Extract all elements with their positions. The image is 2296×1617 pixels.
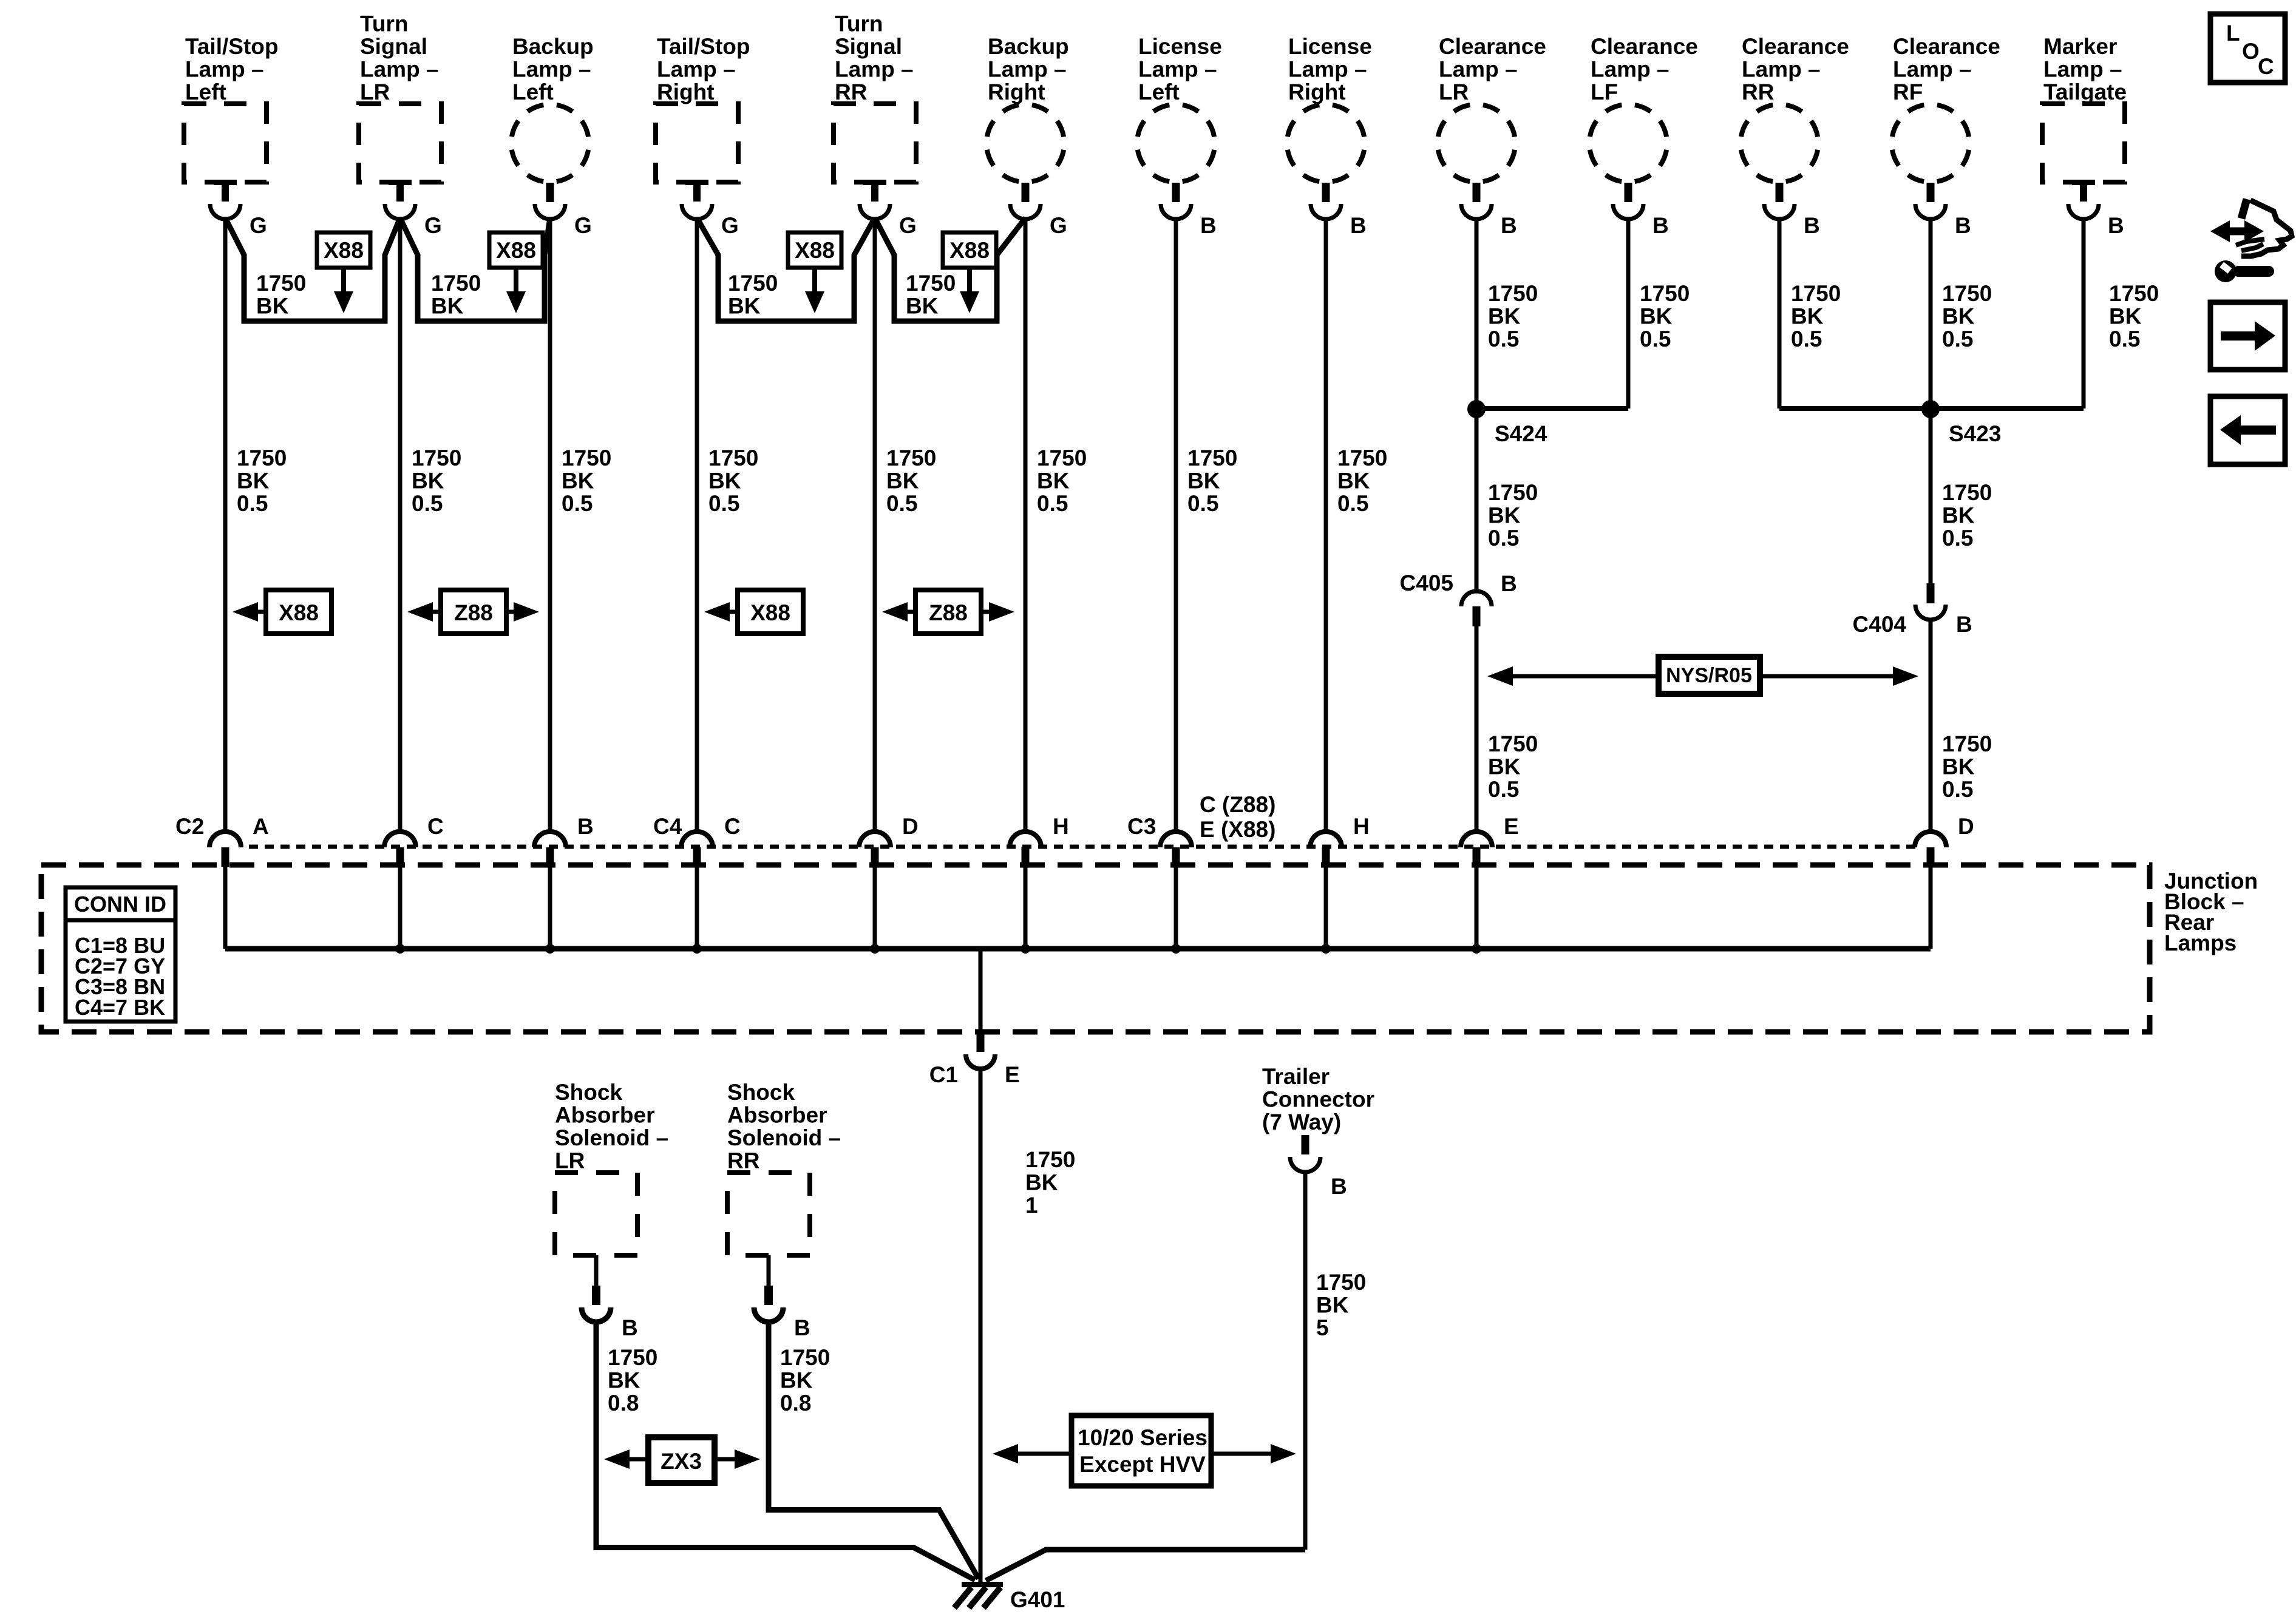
svg-text:RR: RR — [1742, 80, 1774, 104]
svg-text:BK: BK — [431, 294, 464, 319]
svg-text:1750: 1750 — [1488, 731, 1538, 756]
svg-text:BK: BK — [1488, 304, 1521, 329]
svg-text:0.5: 0.5 — [1488, 327, 1519, 351]
svg-text:Backup: Backup — [512, 34, 594, 59]
svg-text:X88: X88 — [750, 600, 790, 625]
svg-text:BK: BK — [412, 469, 444, 493]
svg-text:Lamp –: Lamp – — [1439, 57, 1518, 82]
svg-text:1750: 1750 — [237, 446, 287, 470]
svg-text:Lamp –: Lamp – — [1138, 57, 1217, 82]
svg-text:1: 1 — [1025, 1193, 1038, 1218]
svg-text:C3: C3 — [1127, 814, 1156, 839]
svg-text:C: C — [724, 814, 741, 839]
svg-text:Lamp –: Lamp – — [1591, 57, 1669, 82]
svg-text:Tail/Stop: Tail/Stop — [657, 34, 750, 59]
svg-text:1750: 1750 — [1316, 1270, 1366, 1295]
svg-text:0.5: 0.5 — [1640, 327, 1671, 351]
svg-text:0.5: 0.5 — [1488, 526, 1519, 551]
svg-text:Lamp –: Lamp – — [657, 57, 736, 82]
svg-text:License: License — [1138, 34, 1222, 59]
svg-text:C (Z88): C (Z88) — [1200, 792, 1275, 817]
svg-text:H: H — [1353, 814, 1370, 839]
svg-text:LR: LR — [1439, 80, 1469, 104]
svg-text:B: B — [1350, 213, 1367, 238]
svg-text:LF: LF — [1591, 80, 1618, 104]
svg-text:RR: RR — [835, 80, 867, 104]
svg-text:0.5: 0.5 — [708, 491, 739, 516]
svg-text:Absorber: Absorber — [555, 1103, 654, 1128]
svg-text:BK: BK — [1942, 754, 1975, 779]
svg-text:5: 5 — [1316, 1315, 1329, 1340]
svg-text:X88: X88 — [324, 238, 364, 263]
svg-text:G: G — [899, 213, 917, 238]
svg-text:BK: BK — [1791, 304, 1824, 329]
svg-text:BK: BK — [1316, 1293, 1349, 1318]
svg-text:A: A — [253, 814, 269, 839]
svg-text:Clearance: Clearance — [1742, 34, 1849, 59]
svg-text:0.5: 0.5 — [237, 491, 268, 516]
svg-text:S423: S423 — [1949, 421, 2001, 446]
svg-text:Tail/Stop: Tail/Stop — [185, 34, 278, 59]
svg-text:Lamp –: Lamp – — [835, 57, 914, 82]
svg-text:Right: Right — [1288, 80, 1346, 104]
svg-text:BK: BK — [780, 1368, 813, 1393]
svg-text:Right: Right — [657, 80, 715, 104]
svg-text:0.5: 0.5 — [562, 491, 593, 516]
svg-text:Right: Right — [988, 80, 1045, 104]
svg-text:D: D — [1958, 814, 1974, 839]
svg-text:Backup: Backup — [988, 34, 1069, 59]
svg-text:E: E — [1005, 1062, 1020, 1087]
svg-text:Shock: Shock — [555, 1080, 622, 1105]
svg-text:B: B — [1955, 213, 1971, 238]
svg-text:BK: BK — [562, 469, 594, 493]
svg-text:B: B — [1501, 213, 1517, 238]
svg-text:G: G — [250, 213, 267, 238]
svg-text:C4: C4 — [653, 814, 682, 839]
svg-text:10/20 Series: 10/20 Series — [1078, 1425, 1207, 1450]
svg-text:C: C — [2258, 54, 2274, 79]
svg-text:Left: Left — [185, 80, 226, 104]
svg-text:0.5: 0.5 — [1337, 491, 1368, 516]
svg-text:Lamp –: Lamp – — [1288, 57, 1367, 82]
svg-text:1750: 1750 — [1488, 480, 1538, 505]
svg-text:Clearance: Clearance — [1591, 34, 1698, 59]
svg-text:Lamp –: Lamp – — [185, 57, 264, 82]
svg-text:Connector: Connector — [1262, 1087, 1374, 1112]
svg-text:LR: LR — [360, 80, 390, 104]
svg-text:(7 Way): (7 Way) — [1262, 1110, 1341, 1134]
svg-text:Absorber: Absorber — [727, 1103, 827, 1128]
svg-text:B: B — [577, 814, 594, 839]
svg-text:Lamp –: Lamp – — [1742, 57, 1821, 82]
svg-text:1750: 1750 — [886, 446, 936, 470]
svg-text:BK: BK — [2109, 304, 2142, 329]
svg-text:0.5: 0.5 — [1037, 491, 1068, 516]
svg-text:B: B — [2108, 213, 2124, 238]
svg-text:Tailgate: Tailgate — [2043, 80, 2127, 104]
svg-text:L: L — [2226, 21, 2240, 46]
svg-text:Marker: Marker — [2043, 34, 2117, 59]
svg-text:H: H — [1053, 814, 1069, 839]
svg-text:B: B — [794, 1315, 810, 1340]
svg-text:BK: BK — [1025, 1170, 1058, 1195]
svg-text:G: G — [721, 213, 739, 238]
svg-text:Lamp –: Lamp – — [360, 57, 439, 82]
svg-text:BK: BK — [1337, 469, 1370, 493]
svg-text:B: B — [1652, 213, 1669, 238]
svg-text:BK: BK — [728, 294, 761, 319]
svg-text:Left: Left — [512, 80, 554, 104]
svg-text:BK: BK — [886, 469, 919, 493]
svg-text:LR: LR — [555, 1148, 585, 1173]
svg-text:Signal: Signal — [835, 34, 902, 59]
svg-text:Except HVV: Except HVV — [1079, 1452, 1206, 1477]
svg-text:1750: 1750 — [1025, 1147, 1075, 1172]
svg-text:Signal: Signal — [360, 34, 427, 59]
svg-text:0.8: 0.8 — [780, 1391, 811, 1415]
svg-text:B: B — [622, 1315, 638, 1340]
svg-text:E: E — [1504, 814, 1519, 839]
svg-text:Clearance: Clearance — [1893, 34, 2000, 59]
svg-text:Lamp –: Lamp – — [988, 57, 1067, 82]
svg-text:1750: 1750 — [1942, 480, 1992, 505]
svg-text:Solenoid –: Solenoid – — [555, 1125, 668, 1150]
svg-text:1750: 1750 — [256, 271, 306, 296]
svg-text:D: D — [902, 814, 919, 839]
svg-text:BK: BK — [1942, 503, 1975, 528]
svg-text:0.5: 0.5 — [1488, 777, 1519, 802]
svg-text:Turn: Turn — [835, 12, 883, 36]
svg-text:X88: X88 — [949, 238, 990, 263]
svg-text:BK: BK — [1488, 754, 1521, 779]
svg-text:S424: S424 — [1495, 421, 1547, 446]
svg-text:G401: G401 — [1010, 1587, 1065, 1612]
svg-text:BK: BK — [906, 294, 939, 319]
svg-text:B: B — [1804, 213, 1820, 238]
svg-text:1750: 1750 — [906, 271, 956, 296]
svg-text:Lamps: Lamps — [2164, 931, 2237, 955]
svg-text:BK: BK — [1187, 469, 1220, 493]
svg-text:1750: 1750 — [780, 1345, 830, 1370]
svg-text:0.5: 0.5 — [1942, 777, 1973, 802]
svg-text:Z88: Z88 — [929, 600, 968, 625]
svg-text:1750: 1750 — [2109, 281, 2159, 306]
svg-text:1750: 1750 — [1037, 446, 1087, 470]
svg-text:1750: 1750 — [1791, 281, 1841, 306]
svg-text:BK: BK — [237, 469, 270, 493]
svg-text:C404: C404 — [1853, 612, 1907, 637]
svg-text:Z88: Z88 — [454, 600, 493, 625]
svg-text:B: B — [1200, 213, 1217, 238]
svg-text:Lamp –: Lamp – — [2043, 57, 2122, 82]
svg-text:1750: 1750 — [1337, 446, 1387, 470]
svg-text:NYS/R05: NYS/R05 — [1666, 664, 1752, 687]
svg-text:BK: BK — [1942, 304, 1975, 329]
svg-text:Solenoid –: Solenoid – — [727, 1125, 841, 1150]
svg-text:Lamp –: Lamp – — [512, 57, 591, 82]
svg-text:ZX3: ZX3 — [661, 1449, 702, 1474]
svg-text:G: G — [1050, 213, 1067, 238]
svg-text:1750: 1750 — [728, 271, 778, 296]
svg-text:0.5: 0.5 — [1942, 526, 1973, 551]
svg-text:B: B — [1956, 612, 1972, 637]
svg-text:0.5: 0.5 — [886, 491, 917, 516]
svg-text:0.5: 0.5 — [2109, 327, 2140, 351]
svg-text:RF: RF — [1893, 80, 1923, 104]
svg-text:C1: C1 — [929, 1062, 958, 1087]
svg-text:C: C — [427, 814, 444, 839]
svg-text:1750: 1750 — [1488, 281, 1538, 306]
svg-text:RR: RR — [727, 1148, 759, 1173]
svg-text:License: License — [1288, 34, 1372, 59]
svg-text:1750: 1750 — [1640, 281, 1690, 306]
svg-text:1750: 1750 — [1942, 281, 1992, 306]
svg-text:BK: BK — [1037, 469, 1070, 493]
svg-text:O: O — [2242, 39, 2260, 64]
svg-text:X88: X88 — [279, 600, 319, 625]
svg-text:Trailer: Trailer — [1262, 1064, 1330, 1089]
svg-text:G: G — [424, 213, 442, 238]
svg-text:1750: 1750 — [412, 446, 461, 470]
svg-text:1750: 1750 — [431, 271, 481, 296]
svg-text:C4=7 BK: C4=7 BK — [75, 995, 165, 1020]
svg-text:1750: 1750 — [1942, 731, 1992, 756]
svg-text:Left: Left — [1138, 80, 1180, 104]
svg-text:E (X88): E (X88) — [1200, 817, 1275, 842]
svg-text:0.5: 0.5 — [1942, 327, 1973, 351]
svg-text:CONN ID: CONN ID — [74, 892, 166, 917]
svg-text:Clearance: Clearance — [1439, 34, 1546, 59]
svg-text:0.8: 0.8 — [608, 1391, 639, 1415]
svg-text:BK: BK — [1640, 304, 1673, 329]
svg-text:0.5: 0.5 — [1791, 327, 1822, 351]
svg-text:BK: BK — [708, 469, 741, 493]
svg-text:C405: C405 — [1400, 571, 1453, 595]
svg-text:Lamp –: Lamp – — [1893, 57, 1972, 82]
svg-text:0.5: 0.5 — [1187, 491, 1218, 516]
svg-text:0.5: 0.5 — [412, 491, 443, 516]
svg-text:Turn: Turn — [360, 12, 408, 36]
svg-text:1750: 1750 — [562, 446, 611, 470]
svg-text:BK: BK — [1488, 503, 1521, 528]
svg-text:BK: BK — [256, 294, 289, 319]
svg-text:1750: 1750 — [1187, 446, 1237, 470]
svg-text:B: B — [1331, 1174, 1347, 1199]
svg-text:BK: BK — [608, 1368, 640, 1393]
svg-text:1750: 1750 — [708, 446, 758, 470]
svg-text:X88: X88 — [496, 238, 536, 263]
svg-text:Shock: Shock — [727, 1080, 795, 1105]
svg-text:1750: 1750 — [608, 1345, 657, 1370]
svg-text:C2: C2 — [175, 814, 204, 839]
svg-text:X88: X88 — [795, 238, 835, 263]
svg-text:B: B — [1501, 571, 1517, 596]
svg-text:G: G — [574, 213, 592, 238]
